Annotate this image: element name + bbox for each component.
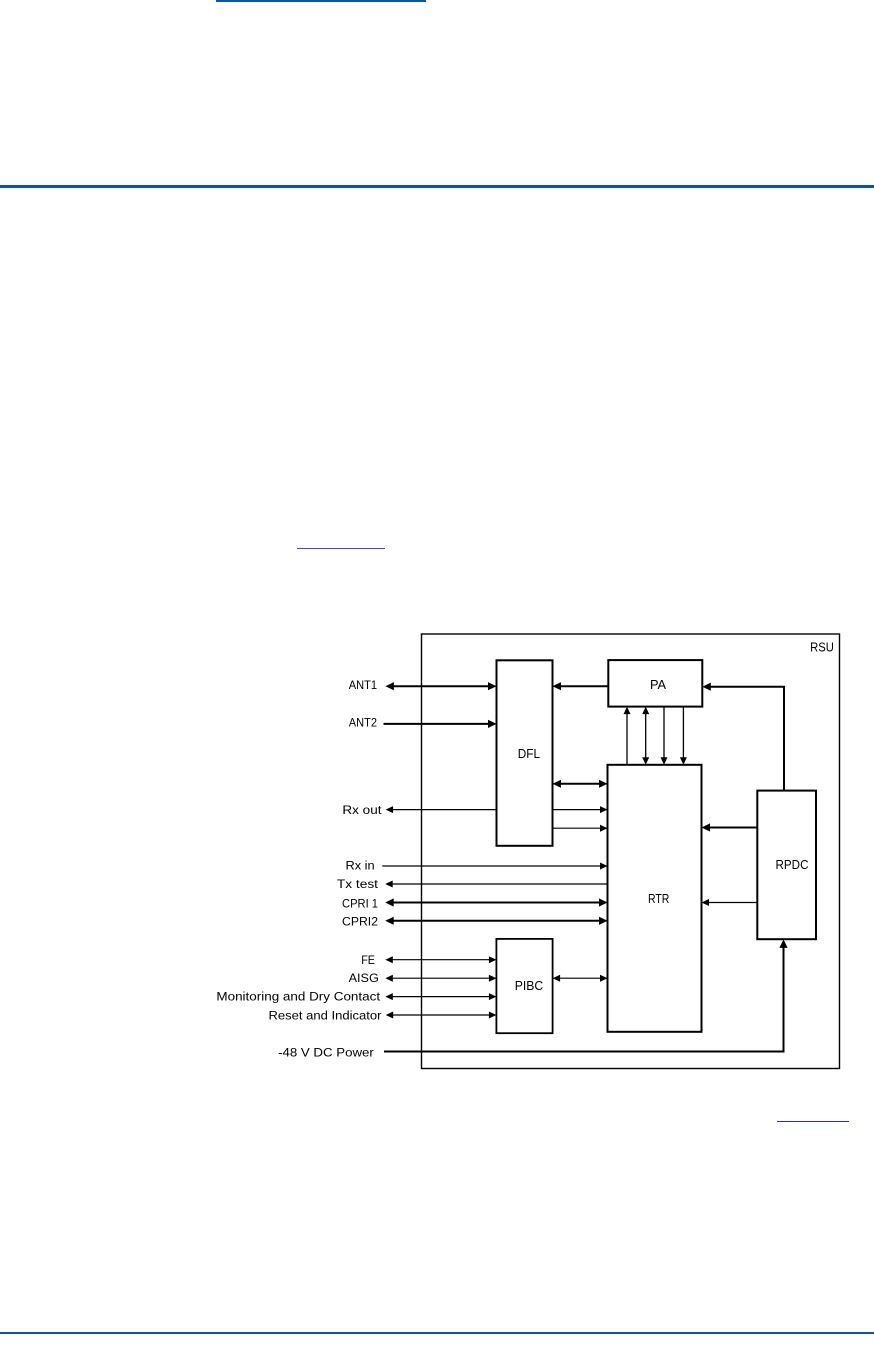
svg-text:PIBC: PIBC <box>515 978 544 993</box>
svg-text:Rx out: Rx out <box>342 803 382 817</box>
link underline (cross reference) <box>297 548 385 549</box>
wire PIBC-RTR (bidirectional) <box>553 975 608 982</box>
wire DFL to RTR (rx path b) <box>553 825 608 832</box>
svg-text:RTR: RTR <box>648 891 669 906</box>
wire FE to PIBC (bidirectional) <box>385 956 496 963</box>
wire RPDC to RTR (lower) <box>702 899 758 906</box>
RSU enclosure box <box>422 634 840 1069</box>
wire Monitoring and Dry Contact to PIBC (bidirectional) <box>385 993 496 1000</box>
svg-text:-48 V DC Power: -48 V DC Power <box>278 1046 374 1060</box>
block PA <box>608 660 702 707</box>
footer rule <box>0 1332 874 1335</box>
wire PA to DFL <box>553 682 609 690</box>
wire -48 V DC Power to RPDC <box>384 939 788 1051</box>
block RTR <box>608 765 702 1032</box>
wire ANT1 to DFL (bidirectional) <box>385 682 496 690</box>
svg-text:CPRI2: CPRI2 <box>342 914 378 928</box>
wire AISG to PIBC (bidirectional) <box>385 975 496 982</box>
svg-text:ANT1: ANT1 <box>349 678 377 692</box>
wire RPDC to PA (power feed) <box>702 683 784 791</box>
svg-text:Rx in: Rx in <box>346 859 375 873</box>
wire PA to RTR (vertical 3, down arrow) <box>661 707 668 765</box>
wire CPRI 1 to RTR (bidirectional) <box>385 898 607 906</box>
svg-text:Tx test: Tx test <box>337 877 379 891</box>
block PIBC <box>496 939 552 1033</box>
wire RPDC to RTR (upper) <box>702 823 758 831</box>
wire Reset and Indicator to PIBC (bidirectional) <box>386 1012 497 1019</box>
svg-text:Reset and Indicator: Reset and Indicator <box>269 1008 382 1022</box>
wire Tx test from RTR <box>385 881 607 888</box>
wire PA-RTR (vertical 2, bidirectional) <box>642 707 649 765</box>
wire DFL-RTR (bidirectional) <box>553 780 608 788</box>
wire RTR to PA (vertical 1, up arrow) <box>624 707 631 765</box>
svg-text:DFL: DFL <box>518 746 540 761</box>
block RPDC <box>757 791 816 940</box>
header rule <box>0 185 874 188</box>
svg-text:Monitoring and Dry Contact: Monitoring and Dry Contact <box>216 990 380 1004</box>
wire CPRI 2 to RTR (bidirectional) <box>385 917 607 925</box>
svg-text:FE: FE <box>361 953 375 967</box>
header link underline (cropped link at top of page) <box>216 0 426 2</box>
wire Rx in to RTR <box>382 863 607 870</box>
svg-text:RPDC: RPDC <box>776 857 809 872</box>
svg-text:AISG: AISG <box>349 971 379 985</box>
svg-text:PA: PA <box>650 677 666 692</box>
block DFL <box>497 660 553 846</box>
svg-text:RSU: RSU <box>810 640 834 655</box>
svg-text:CPRI 1: CPRI 1 <box>342 896 378 910</box>
wire PA to RTR (vertical 4, down arrow) <box>680 707 687 765</box>
wire Rx out from DFL <box>386 806 497 813</box>
wire ANT2 to DFL <box>384 720 497 728</box>
link underline (figure reference, right) <box>777 1121 849 1123</box>
svg-text:ANT2: ANT2 <box>349 716 377 730</box>
wire DFL to RTR (rx path a) <box>553 806 608 813</box>
